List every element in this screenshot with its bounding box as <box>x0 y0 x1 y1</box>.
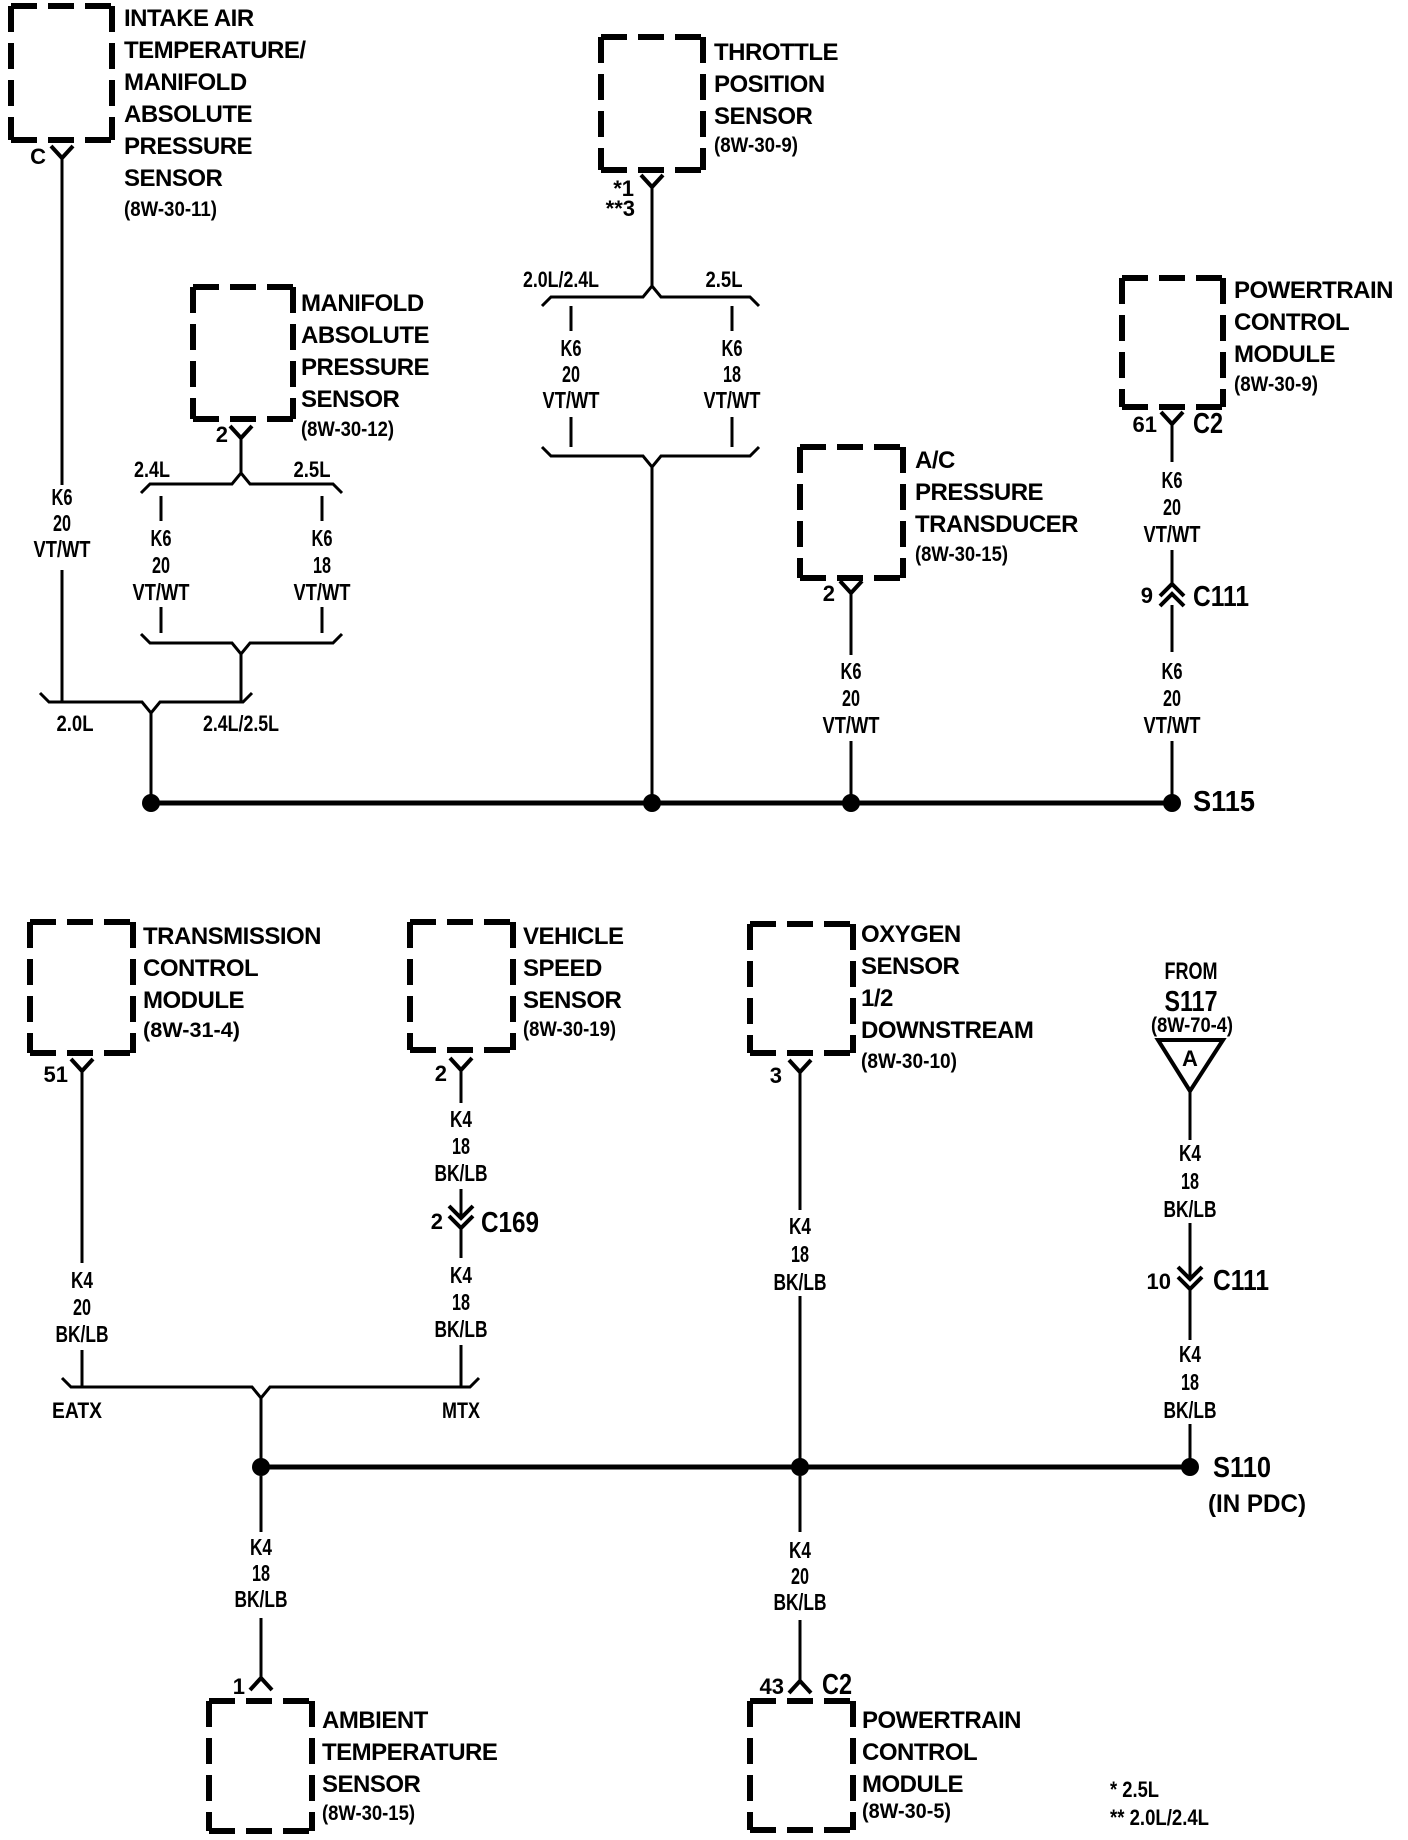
svg-text:9: 9 <box>1141 583 1153 608</box>
svg-text:POWERTRAIN: POWERTRAIN <box>862 1707 1021 1734</box>
svg-text:SENSOR: SENSOR <box>322 1771 421 1798</box>
svg-text:(8W-30-9): (8W-30-9) <box>714 134 798 157</box>
svg-text:EATX: EATX <box>52 1398 102 1423</box>
svg-text:ABSOLUTE: ABSOLUTE <box>124 101 252 128</box>
svg-text:MTX: MTX <box>442 1398 480 1423</box>
svg-text:2: 2 <box>216 422 228 447</box>
svg-text:FROM: FROM <box>1165 958 1218 985</box>
svg-text:18: 18 <box>452 1133 470 1159</box>
svg-text:18: 18 <box>1181 1168 1199 1194</box>
svg-text:BK/LB: BK/LB <box>435 1316 488 1342</box>
svg-text:2: 2 <box>823 581 835 606</box>
svg-text:K4: K4 <box>789 1213 811 1239</box>
svg-text:C111: C111 <box>1213 1265 1269 1297</box>
svg-text:K6: K6 <box>1162 467 1183 493</box>
svg-text:K4: K4 <box>789 1537 811 1563</box>
svg-text:K6: K6 <box>1162 658 1183 684</box>
svg-text:SENSOR: SENSOR <box>861 953 960 980</box>
svg-text:K6: K6 <box>151 525 172 551</box>
svg-text:(8W-70-4): (8W-70-4) <box>1151 1014 1233 1037</box>
svg-text:2: 2 <box>431 1209 443 1234</box>
svg-text:A: A <box>1182 1046 1198 1071</box>
svg-text:C: C <box>30 144 46 169</box>
svg-text:** 2.0L/2.4L: ** 2.0L/2.4L <box>1110 1805 1209 1830</box>
svg-text:INTAKE AIR: INTAKE AIR <box>124 5 254 32</box>
svg-text:ABSOLUTE: ABSOLUTE <box>301 322 429 349</box>
svg-text:K6: K6 <box>722 335 743 361</box>
svg-text:20: 20 <box>842 685 860 711</box>
svg-text:K4: K4 <box>250 1534 272 1560</box>
svg-text:(8W-30-15): (8W-30-15) <box>915 543 1008 566</box>
svg-text:18: 18 <box>791 1241 809 1267</box>
svg-text:A/C: A/C <box>915 447 955 474</box>
svg-text:CONTROL: CONTROL <box>1234 309 1349 336</box>
svg-text:POWERTRAIN: POWERTRAIN <box>1234 277 1393 304</box>
svg-text:VEHICLE: VEHICLE <box>523 923 624 950</box>
svg-text:SENSOR: SENSOR <box>523 987 622 1014</box>
svg-text:MODULE: MODULE <box>862 1771 963 1798</box>
svg-text:2.5L: 2.5L <box>294 457 331 482</box>
svg-text:BK/LB: BK/LB <box>1164 1196 1217 1222</box>
svg-text:(8W-30-15): (8W-30-15) <box>322 1802 415 1825</box>
svg-text:2.0L/2.4L: 2.0L/2.4L <box>523 267 599 292</box>
svg-text:2.0L: 2.0L <box>57 711 94 736</box>
svg-text:VT/WT: VT/WT <box>294 579 351 605</box>
svg-text:K6: K6 <box>312 525 333 551</box>
svg-text:(8W-30-10): (8W-30-10) <box>861 1050 957 1073</box>
svg-text:20: 20 <box>73 1294 91 1320</box>
svg-text:K6: K6 <box>841 658 862 684</box>
svg-text:10: 10 <box>1147 1269 1171 1294</box>
svg-text:1: 1 <box>233 1674 245 1699</box>
svg-text:2.4L/2.5L: 2.4L/2.5L <box>203 711 279 736</box>
svg-text:CONTROL: CONTROL <box>143 955 258 982</box>
svg-text:BK/LB: BK/LB <box>774 1269 827 1295</box>
svg-text:2.4L: 2.4L <box>134 457 170 482</box>
svg-text:20: 20 <box>791 1563 809 1589</box>
svg-text:2.5L: 2.5L <box>706 267 743 292</box>
svg-text:TRANSDUCER: TRANSDUCER <box>915 511 1078 538</box>
svg-text:K6: K6 <box>561 335 582 361</box>
svg-text:MANIFOLD: MANIFOLD <box>124 69 247 96</box>
svg-text:K4: K4 <box>1179 1341 1201 1367</box>
svg-text:C2: C2 <box>1193 408 1223 440</box>
svg-text:DOWNSTREAM: DOWNSTREAM <box>861 1017 1033 1044</box>
svg-text:POSITION: POSITION <box>714 71 825 98</box>
svg-text:TEMPERATURE: TEMPERATURE <box>322 1739 498 1766</box>
svg-text:20: 20 <box>53 510 71 536</box>
svg-text:18: 18 <box>452 1289 470 1315</box>
svg-text:* 2.5L: * 2.5L <box>1110 1777 1159 1802</box>
svg-text:18: 18 <box>1181 1369 1199 1395</box>
svg-text:(8W-31-4): (8W-31-4) <box>143 1019 240 1042</box>
svg-text:PRESSURE: PRESSURE <box>124 133 253 160</box>
svg-text:VT/WT: VT/WT <box>1144 521 1201 547</box>
svg-text:K4: K4 <box>450 1262 472 1288</box>
svg-text:CONTROL: CONTROL <box>862 1739 977 1766</box>
svg-text:S115: S115 <box>1193 786 1255 818</box>
svg-text:20: 20 <box>562 361 580 387</box>
svg-text:TRANSMISSION: TRANSMISSION <box>143 923 321 950</box>
svg-text:SENSOR: SENSOR <box>124 165 223 192</box>
svg-text:VT/WT: VT/WT <box>133 579 190 605</box>
svg-text:OXYGEN: OXYGEN <box>861 921 961 948</box>
svg-text:3: 3 <box>770 1063 782 1088</box>
svg-text:VT/WT: VT/WT <box>34 536 91 562</box>
svg-text:AMBIENT: AMBIENT <box>322 1707 429 1734</box>
svg-text:PRESSURE: PRESSURE <box>915 479 1044 506</box>
svg-text:THROTTLE: THROTTLE <box>714 39 838 66</box>
svg-text:BK/LB: BK/LB <box>235 1586 288 1612</box>
svg-text:20: 20 <box>152 552 170 578</box>
svg-text:(IN PDC): (IN PDC) <box>1208 1490 1306 1518</box>
svg-text:BK/LB: BK/LB <box>1164 1397 1217 1423</box>
svg-text:20: 20 <box>1163 685 1181 711</box>
svg-text:18: 18 <box>252 1560 270 1586</box>
svg-text:K4: K4 <box>1179 1140 1201 1166</box>
svg-text:K6: K6 <box>52 484 73 510</box>
svg-text:43: 43 <box>760 1674 784 1699</box>
svg-text:61: 61 <box>1133 412 1157 437</box>
svg-text:20: 20 <box>1163 494 1181 520</box>
svg-text:(8W-30-5): (8W-30-5) <box>862 1800 951 1823</box>
svg-text:VT/WT: VT/WT <box>1144 712 1201 738</box>
svg-text:(8W-30-11): (8W-30-11) <box>124 198 217 221</box>
svg-text:BK/LB: BK/LB <box>774 1589 827 1615</box>
svg-text:(8W-30-9): (8W-30-9) <box>1234 373 1318 396</box>
svg-text:PRESSURE: PRESSURE <box>301 354 430 381</box>
svg-text:18: 18 <box>313 552 331 578</box>
svg-text:SENSOR: SENSOR <box>301 386 400 413</box>
svg-text:C111: C111 <box>1193 581 1249 613</box>
svg-text:1/2: 1/2 <box>861 985 893 1012</box>
svg-text:VT/WT: VT/WT <box>704 387 761 413</box>
svg-text:K4: K4 <box>450 1106 472 1132</box>
svg-text:SPEED: SPEED <box>523 955 602 982</box>
svg-text:MODULE: MODULE <box>1234 341 1335 368</box>
svg-text:BK/LB: BK/LB <box>435 1160 488 1186</box>
svg-text:MODULE: MODULE <box>143 987 244 1014</box>
svg-text:MANIFOLD: MANIFOLD <box>301 290 424 317</box>
svg-text:18: 18 <box>723 361 741 387</box>
svg-text:**3: **3 <box>606 196 635 221</box>
svg-text:(8W-30-19): (8W-30-19) <box>523 1018 616 1041</box>
svg-text:(8W-30-12): (8W-30-12) <box>301 418 394 441</box>
svg-text:K4: K4 <box>71 1267 93 1293</box>
svg-text:VT/WT: VT/WT <box>823 712 880 738</box>
svg-text:C169: C169 <box>481 1207 539 1239</box>
svg-text:VT/WT: VT/WT <box>543 387 600 413</box>
svg-text:2: 2 <box>435 1061 447 1086</box>
svg-text:C2: C2 <box>822 1669 852 1701</box>
svg-text:51: 51 <box>44 1062 68 1087</box>
svg-text:SENSOR: SENSOR <box>714 103 813 130</box>
svg-text:S110: S110 <box>1213 1452 1271 1484</box>
svg-text:BK/LB: BK/LB <box>56 1321 109 1347</box>
svg-text:TEMPERATURE/: TEMPERATURE/ <box>124 37 306 64</box>
